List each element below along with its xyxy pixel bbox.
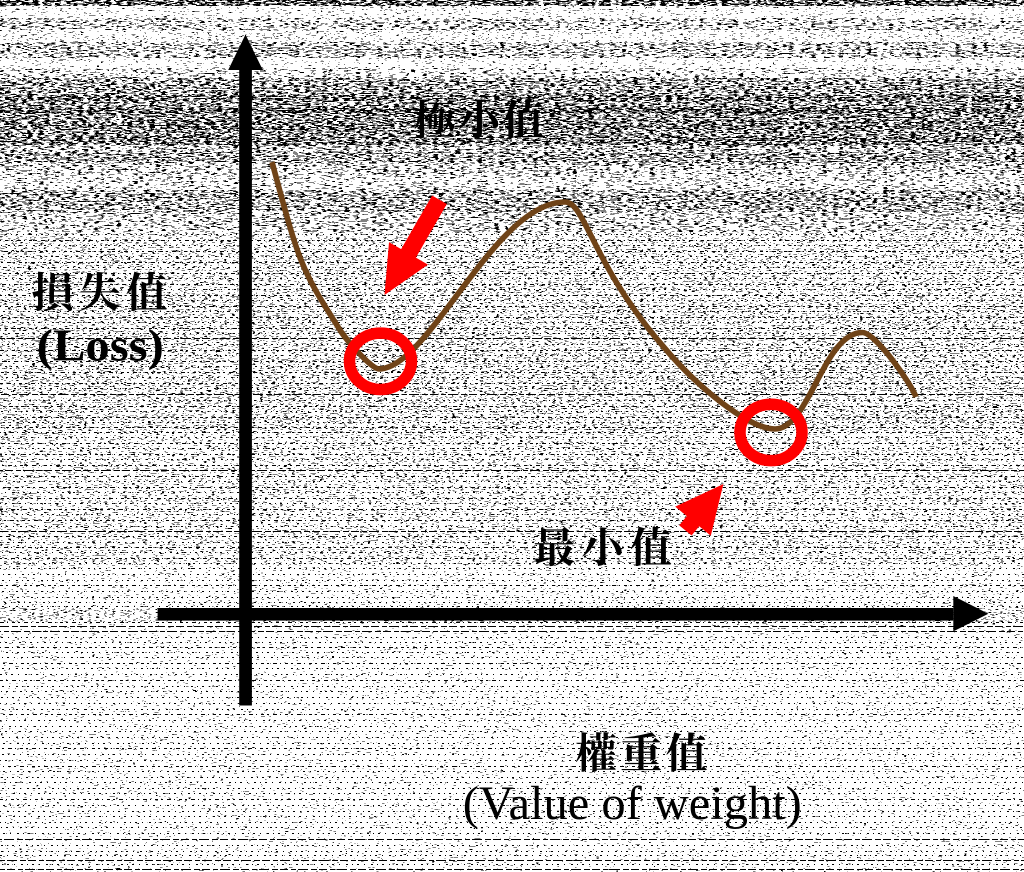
svg-text:(Value of weight): (Value of weight) (463, 777, 802, 830)
svg-text:(Loss): (Loss) (37, 320, 164, 371)
